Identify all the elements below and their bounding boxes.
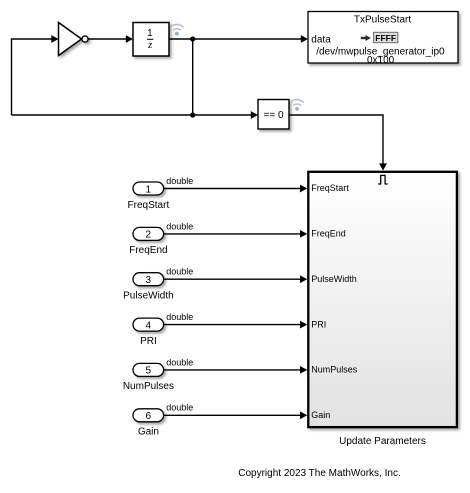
svg-text:FreqStart: FreqStart	[128, 200, 170, 211]
svg-text:Update Parameters: Update Parameters	[339, 436, 426, 447]
svg-text:double: double	[166, 403, 193, 413]
svg-text:PulseWidth: PulseWidth	[123, 291, 174, 302]
svg-text:Copyright 2023 The MathWorks,: Copyright 2023 The MathWorks, Inc.	[238, 468, 401, 479]
svg-text:1: 1	[147, 28, 153, 39]
svg-text:FreqEnd: FreqEnd	[311, 229, 346, 239]
svg-text:double: double	[166, 267, 193, 277]
svg-text:FreqEnd: FreqEnd	[129, 245, 167, 256]
svg-text:double: double	[166, 357, 193, 367]
svg-text:NumPulses: NumPulses	[123, 381, 174, 392]
svg-text:double: double	[166, 176, 193, 186]
svg-text:FFFF: FFFF	[375, 33, 396, 43]
svg-text:z: z	[147, 40, 152, 51]
svg-text:3: 3	[146, 275, 152, 286]
svg-text:double: double	[166, 221, 193, 231]
svg-text:PRI: PRI	[311, 319, 326, 329]
svg-text:0x100: 0x100	[367, 55, 395, 66]
svg-text:Gain: Gain	[138, 427, 159, 438]
svg-text:4: 4	[146, 320, 152, 331]
svg-text:== 0: == 0	[263, 110, 283, 121]
svg-text:5: 5	[146, 366, 152, 377]
svg-text:1: 1	[146, 184, 152, 195]
svg-text:6: 6	[146, 411, 152, 422]
svg-text:NumPulses: NumPulses	[311, 365, 358, 375]
svg-text:2: 2	[146, 230, 152, 241]
svg-text:FreqStart: FreqStart	[311, 183, 349, 193]
svg-text:PRI: PRI	[140, 336, 157, 347]
svg-text:double: double	[166, 312, 193, 322]
svg-text:PulseWidth: PulseWidth	[311, 274, 357, 284]
svg-text:TxPulseStart: TxPulseStart	[354, 15, 411, 26]
svg-text:Gain: Gain	[311, 410, 330, 420]
svg-text:data: data	[311, 34, 331, 45]
